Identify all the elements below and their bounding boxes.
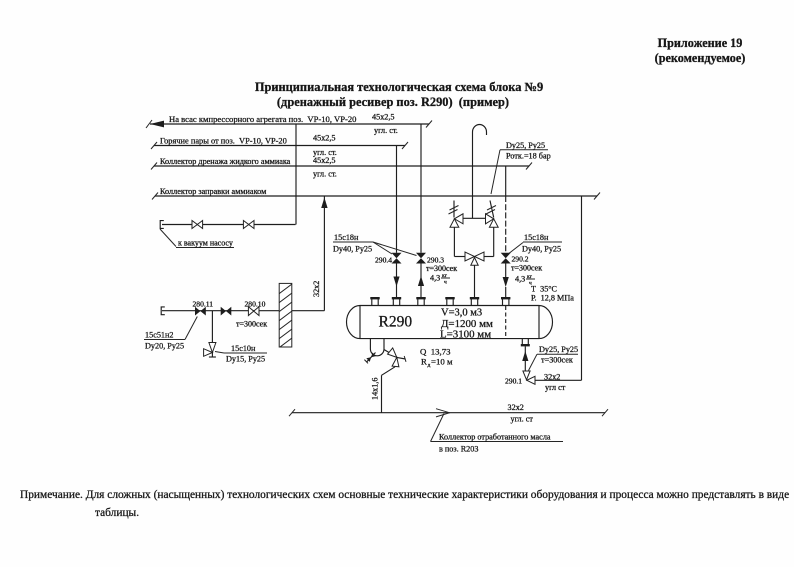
svg-text:ч: ч (444, 280, 447, 286)
oil pot under vessel (370, 339, 384, 356)
wire: SV drain risers (453, 227, 455, 256)
safety valve left (with spring) (449, 201, 464, 228)
header note "Приложение 19" (655, 36, 746, 65)
svg-text:Примечание. Для сложных (насыщ: Примечание. Для сложных (насыщенных) тех… (20, 489, 789, 501)
vessel R290 shell (347, 306, 553, 339)
svg-text:в поз. R203: в поз. R203 (439, 445, 478, 454)
valve 290.2 (501, 253, 543, 287)
valve 280.11 (193, 300, 214, 316)
three-way valve under SVs (465, 252, 484, 265)
valve 290.3 (416, 253, 457, 286)
wire: oil drain diagonal + 14x1,6 drop (371, 367, 396, 413)
bottom collector: used oil (289, 403, 608, 424)
svg-text:(дренажный ресивер поз. R290): (дренажный ресивер поз. R290) (пример) (277, 95, 509, 109)
svg-text:=10 м: =10 м (431, 357, 453, 367)
label 15с18н / Dy40, Py25 (left pair) with two leaders (333, 233, 417, 256)
footnote (20, 489, 789, 519)
svg-text:280.10: 280.10 (245, 300, 266, 309)
valve (middle, unlabeled) (221, 307, 232, 316)
svg-text:V=3,0 м3: V=3,0 м3 (441, 308, 482, 319)
svg-text:угл ст: угл ст (545, 383, 566, 392)
svg-text:15с18н: 15с18н (524, 233, 549, 242)
valve 280.10 (236, 300, 267, 329)
wire: drop to valve 290.1 with up arrow (522, 346, 528, 371)
collector line 4: ammonia filling header (152, 187, 600, 200)
svg-text:Q 13,73: Q 13,73 (420, 347, 451, 357)
valve (vacuum line, left) (192, 221, 203, 229)
svg-text:Коллектор дренажа жидкого амми: Коллектор дренажа жидкого аммиака (160, 157, 291, 166)
pipe cap vacuum line (160, 221, 164, 229)
label Dy25, Py25 / Ротк.=18 бар with leader (491, 141, 551, 194)
svg-text:таблицы.: таблицы. (95, 507, 139, 519)
vent pipe with hook (candy cane) (473, 125, 487, 219)
svg-text:15с10н: 15с10н (231, 344, 256, 353)
svg-text:Dy40, Py25: Dy40, Py25 (333, 245, 372, 254)
svg-text:Dy15, Py25: Dy15, Py25 (226, 355, 265, 364)
svg-text:т=300сек: т=300сек (511, 264, 542, 273)
wall passage (hatched) (272, 281, 296, 371)
svg-text:Dy20, Py25: Dy20, Py25 (145, 342, 184, 351)
label "Коллектор отработанного масла / в поз. R203" with leader (431, 414, 564, 454)
svg-text:32х2: 32х2 (544, 373, 560, 382)
svg-text:Горячие пары от поз. VP-10, V: Горячие пары от поз. VP-10, VP-20 (160, 137, 287, 146)
svg-text:Ротк.=18 бар: Ротк.=18 бар (506, 152, 551, 161)
svg-text:угл. ст.: угл. ст. (374, 126, 398, 135)
svg-text:Dy25, Py25: Dy25, Py25 (506, 141, 545, 150)
svg-text:4,3: 4,3 (515, 275, 525, 284)
svg-text:угл. ст: угл. ст (511, 415, 534, 424)
svg-text:14х1,6: 14х1,6 (371, 377, 380, 400)
bottom nozzle (vessel right underside) (521, 339, 530, 346)
title (255, 80, 543, 109)
svg-text:4,3: 4,3 (430, 274, 440, 283)
valve 290.1 (angle) (505, 371, 535, 386)
svg-text:угл. ст.: угл. ст. (313, 170, 337, 179)
svg-text:т=300сек: т=300сек (236, 320, 267, 329)
leader + label "к вакуум насосу" (160, 229, 234, 248)
svg-text:к вакуум насосу: к вакуум насосу (178, 239, 233, 248)
svg-text:15с18н: 15с18н (334, 233, 359, 242)
svg-text:290.2: 290.2 (512, 255, 529, 264)
nozzle 3 (416, 298, 425, 305)
wire: riser from line 1 to valve 290.3 (420, 124, 422, 253)
wire: three-way valve drop to nozzle 5 (474, 265, 476, 297)
svg-text:R290: R290 (379, 314, 413, 331)
safety valve right (with spring) (486, 201, 499, 228)
label 15с18н / Dy40, Py25 (right) with leader (508, 233, 563, 255)
operating conditions text (531, 285, 574, 303)
svg-text:Р. 12,8 МПа: Р. 12,8 МПа (531, 294, 574, 303)
wire: riser 290.2 from line 3 (dashed) (505, 166, 507, 196)
svg-text:Dy40, Py25: Dy40, Py25 (522, 245, 561, 254)
collector line 2: "Горячие пары" header (151, 134, 408, 158)
svg-text:Коллектор отработанного масла: Коллектор отработанного масла (439, 433, 551, 442)
nozzle 1 (spare) (370, 298, 379, 305)
nozzle 5 (470, 298, 479, 305)
valve (vacuum line, right) (243, 221, 254, 229)
nozzle 4 (spare) (445, 298, 454, 305)
wire: 290.1 outlet to right drop from line 4 (535, 196, 582, 392)
svg-text:На всас кмпрессорного агрегата: На всас кмпрессорного агрегата поз. VP-1… (169, 114, 356, 124)
svg-text:45х2,5: 45х2,5 (313, 134, 336, 143)
svg-text:L=3100 мм: L=3100 мм (440, 329, 491, 341)
oil pot drain valve (tilted, filled) (364, 353, 375, 364)
collector line 1: suction header "На всас..." (146, 113, 432, 136)
dip tube (dashed) inside vessel (505, 306, 507, 338)
svg-text:Dy25, Py25: Dy25, Py25 (539, 345, 578, 354)
svg-text:280.11: 280.11 (193, 300, 214, 309)
wire: 32x2 riser to line 4 with up arrow (312, 196, 328, 311)
svg-text:45х2,5: 45х2,5 (372, 113, 395, 122)
wire: 290.4 drop with down arrow to nozzle 2 (393, 264, 399, 298)
label Q / R under vessel (420, 347, 453, 369)
pipe cap left feed (161, 307, 165, 315)
vessel data text (440, 308, 493, 341)
wire: left feed line through wall (162, 310, 324, 312)
label 15с10н / Dy15, Py25 (215, 344, 267, 364)
relief angle valve 15с10н (204, 343, 216, 358)
nozzle 2 (392, 298, 401, 305)
svg-text:15с51н2: 15с51н2 (145, 331, 173, 340)
collector line 3: liquid ammonia drainage header (151, 156, 532, 179)
wire: T-drop to relief valve (211, 311, 213, 343)
wire: vacuum riser from line 1 down (295, 124, 297, 225)
wire: vacuum branch horizontal (162, 224, 296, 226)
svg-text:R: R (421, 357, 427, 367)
svg-text:(рекомендуемое): (рекомендуемое) (655, 51, 746, 65)
oil outlet three-way valve (384, 348, 406, 367)
valve 290.4 (375, 253, 402, 265)
label 15с51н2 / Dy20, Py25 with leader (144, 317, 197, 351)
label Dy25 Py25 t=300 (290.1) with leader (529, 345, 579, 371)
svg-text:32х2: 32х2 (312, 281, 321, 297)
svg-text:Коллектор заправки аммиаком: Коллектор заправки аммиаком (160, 187, 266, 196)
svg-text:290.1: 290.1 (505, 377, 522, 386)
svg-text:т=300сек: т=300сек (541, 356, 573, 365)
svg-text:32х2: 32х2 (508, 403, 524, 412)
wire: riser from line 2 to valve 290.4 (396, 146, 398, 253)
svg-text:Т 35°С: Т 35°С (531, 285, 558, 294)
svg-text:290.4: 290.4 (375, 256, 392, 265)
svg-text:45х2,5: 45х2,5 (313, 156, 336, 165)
svg-text:Принципиальная технологическая: Принципиальная технологическая схема бло… (255, 80, 543, 94)
svg-text:Приложение 19: Приложение 19 (658, 36, 743, 50)
wire: 290.3 drop with up arrow to nozzle 3 (418, 264, 424, 298)
nozzle 6 (501, 298, 510, 305)
svg-text:т=300сек: т=300сек (426, 264, 457, 273)
wire: 290.2 drop with down arrow to nozzle 6 (503, 264, 509, 298)
wire: SV bridge to vent (463, 217, 486, 219)
wire: SV drain header (454, 256, 465, 258)
